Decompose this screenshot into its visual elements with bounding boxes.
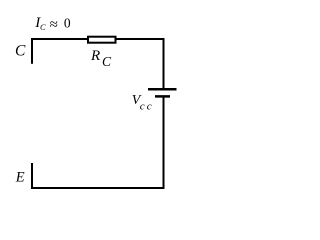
battery VCC top plate (long): [148, 88, 177, 91]
svg-text:R: R: [90, 48, 100, 64]
label RC: [90, 48, 112, 69]
wire right vertical lower (battery to bottom corner): [163, 96, 165, 189]
resistor RC body: [88, 37, 116, 43]
wire C terminal stub: [31, 38, 33, 64]
battery VCC bottom plate (short): [155, 95, 170, 98]
svg-text:0: 0: [64, 15, 71, 30]
svg-text:C: C: [102, 54, 112, 69]
wire bottom horizontal: [31, 187, 165, 189]
wire right vertical upper (to battery): [163, 38, 165, 89]
svg-text:≈: ≈: [50, 17, 58, 33]
svg-text:C: C: [15, 42, 26, 59]
wire E terminal stub: [31, 163, 33, 189]
label VCC: [132, 93, 154, 113]
svg-text:E: E: [15, 170, 25, 186]
wire top horizontal (C corner to top-right corner): [31, 38, 165, 40]
label IC approx 0: [34, 15, 71, 33]
svg-text:cc: cc: [140, 101, 154, 113]
svg-text:C: C: [40, 22, 46, 32]
